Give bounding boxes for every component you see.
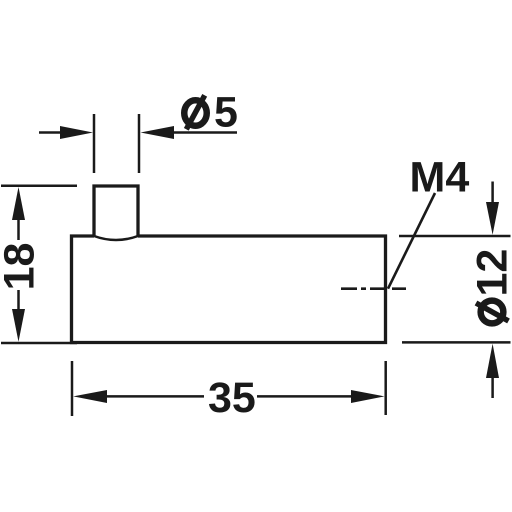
svg-text:5: 5	[214, 89, 238, 137]
dimension Ø12: top arrow (pointing down)	[486, 182, 499, 235]
dimension Ø12: bottom extension line	[402, 341, 511, 344]
dimension 35: dimension line with arrows	[73, 390, 384, 403]
dimension Ø5: right arrow	[141, 126, 238, 139]
leader line M4	[388, 193, 435, 289]
pin base fillet arc	[94, 236, 138, 240]
dimension 18: top extension line	[1, 184, 77, 187]
label 18 (rotated)	[0, 243, 44, 291]
dimension Ø12: top extension line	[399, 235, 511, 238]
dimension Ø5: left arrow	[39, 126, 93, 139]
dimension 35: left extension line	[71, 361, 74, 416]
svg-text:M4: M4	[410, 154, 470, 202]
dimension Ø5: left extension line	[93, 114, 96, 173]
svg-text:18: 18	[0, 243, 44, 291]
svg-text:35: 35	[208, 374, 256, 422]
label 35	[208, 374, 256, 422]
part body (side view rectangle)	[72, 236, 386, 343]
dimension 18: bottom extension line	[1, 342, 77, 345]
dimension 35: right extension line	[384, 361, 387, 415]
pin (Ø5 spigot on top)	[94, 186, 138, 237]
center line (dash-dot axis)	[341, 287, 406, 290]
label Ø5 (diameter symbol + digit)	[184, 89, 238, 137]
label Ø12 (rotated, diameter symbol + digits)	[469, 249, 512, 324]
dimension Ø5: right extension line	[138, 114, 141, 173]
svg-text:12: 12	[469, 249, 512, 297]
label M4	[410, 154, 470, 202]
dimension 18: dimension line with arrows	[12, 187, 25, 342]
dimension Ø12: bottom arrow (pointing up)	[486, 344, 499, 398]
